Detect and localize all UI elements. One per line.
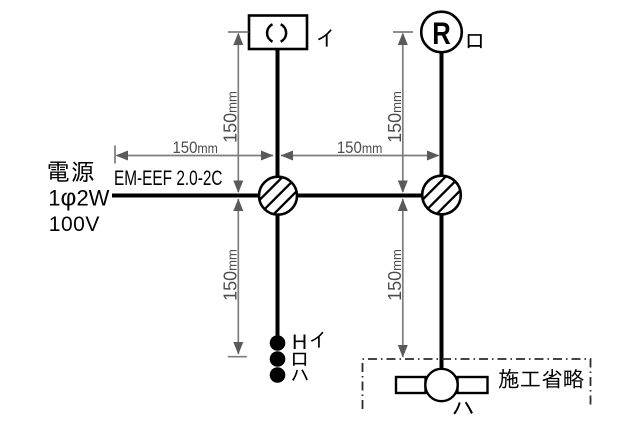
switch ロ xyxy=(270,351,286,367)
wire: lamp R to JB2 xyxy=(440,52,444,196)
switch ハ xyxy=(270,367,286,383)
wire: JB2 to exhaust fan xyxy=(440,196,444,371)
wire: junction box JB1 to junction box JB2 xyxy=(278,194,442,198)
switch Hイ (pilot-lamp switch) xyxy=(270,335,286,351)
label 施工省略 xyxy=(499,369,584,389)
exhaust fan ハ : right blade xyxy=(458,377,488,393)
junction box JB1 (hatched) xyxy=(246,164,310,228)
svg-text:R: R xyxy=(432,15,451,51)
construction omitted boundary (dash-dot box) xyxy=(363,359,591,409)
wire: ceiling rosette to JB1 xyxy=(276,49,280,338)
dimension H2: centre wire to right wire, 150mm xyxy=(281,138,440,161)
wire: feed from power source to junction box JB1 xyxy=(112,194,278,198)
label イ (rosette circuit) xyxy=(318,29,332,46)
dimension V1: rosette to JB1, 150mm xyxy=(220,32,248,193)
power source label 電源 1φ2W 100V xyxy=(49,162,69,182)
lamp receptacle R xyxy=(421,12,462,53)
dimension V3: JB1 to switches, 150mm xyxy=(220,199,247,357)
label ハ (fan circuit) xyxy=(453,402,473,415)
exhaust fan ハ : left blade xyxy=(396,377,426,393)
junction box JB2 (hatched) xyxy=(409,163,473,227)
svg-text:EM-EEF 2.0-2C: EM-EEF 2.0-2C xyxy=(114,167,223,190)
label ロ (lamp circuit) xyxy=(468,34,482,48)
ceiling rosette (hook ceiling, square) box xyxy=(249,16,307,50)
exhaust fan ハ : motor circle xyxy=(425,369,457,401)
svg-text:100V: 100V xyxy=(49,213,100,236)
label ハ xyxy=(292,369,308,381)
svg-text:150mm: 150mm xyxy=(172,138,218,157)
svg-text:1φ2W: 1φ2W xyxy=(48,185,109,212)
label ロ xyxy=(293,353,306,366)
ceiling rosette contacts ( ) xyxy=(267,24,272,41)
dimension V2: lamp R to JB2, 150mm xyxy=(385,32,413,193)
svg-text:150mm: 150mm xyxy=(337,138,383,157)
dimension H1: feed point to centre wire, 150mm xyxy=(115,138,274,164)
svg-text:H: H xyxy=(292,331,307,354)
dimension V4: JB2 to omitted area, 150mm xyxy=(385,199,408,358)
